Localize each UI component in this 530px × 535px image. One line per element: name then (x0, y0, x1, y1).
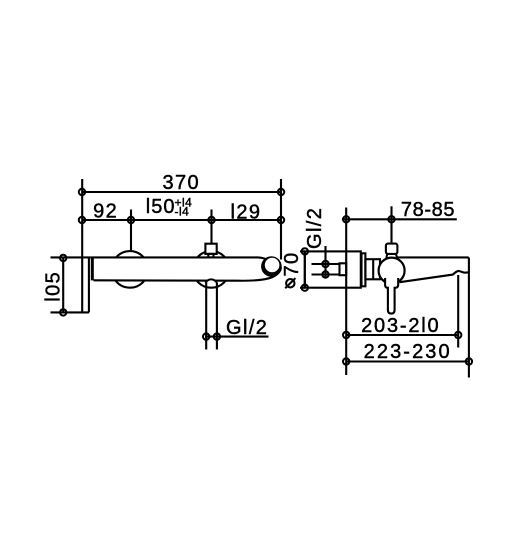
extension line rosette1 (130, 210, 132, 252)
circle 129 right (278, 217, 284, 223)
circle 105 bottom (60, 309, 66, 315)
body cylinder (365, 259, 380, 279)
circle 105 top (60, 255, 66, 261)
wall plate bottom edge (51, 311, 90, 313)
aerator extension (457, 275, 459, 348)
port pipe bottom (312, 273, 340, 275)
svg-text:223-230: 223-230 (364, 341, 452, 363)
circle 203 left (343, 332, 349, 338)
extension line knob (210, 210, 212, 244)
leader G1/2 front (205, 336, 269, 338)
knob neck right (396, 254, 397, 258)
circle dia70 top (302, 248, 308, 254)
circle 92 left (79, 217, 85, 223)
circle G12 front right (214, 333, 220, 339)
svg-text:-l4: -l4 (175, 204, 190, 218)
knob stem extension (390, 206, 392, 243)
svg-text:Gl/2: Gl/2 (226, 317, 268, 339)
svg-text:Gl/2: Gl/2 (304, 207, 326, 249)
cartridge box (340, 263, 347, 275)
hose pipe right line (216, 283, 218, 350)
phi symbol slash (285, 278, 295, 288)
circle dia70 bottom (302, 285, 308, 291)
svg-text:203-2l0: 203-2l0 (361, 315, 440, 337)
spout top edge (91, 257, 267, 259)
knob square side (386, 244, 398, 254)
lever outline (385, 278, 398, 314)
spout bottom edge (94, 267, 281, 281)
dia70 dimension line (304, 251, 306, 287)
circle port bottom (322, 271, 328, 277)
diverter knob square (205, 244, 216, 254)
wall line (345, 208, 347, 376)
housing top tick (300, 250, 305, 252)
circle 370 right (278, 189, 284, 195)
spout side fill (400, 257, 469, 281)
spout side underside (400, 271, 469, 282)
dimension line 105 (62, 258, 64, 312)
valve circle (379, 258, 405, 284)
circle 78-85 right (388, 216, 394, 222)
svg-text:l29: l29 (231, 202, 262, 224)
spout side top edge (396, 257, 469, 272)
circle port top (322, 261, 328, 267)
dimension line 78-85 (342, 218, 457, 220)
wall plate right edge (88, 257, 90, 312)
circle 223 left (343, 358, 349, 364)
circle 223 right (466, 358, 472, 364)
housing bottom tick (300, 287, 305, 289)
circle 78-85 left (343, 216, 349, 222)
dimension line 92/150/129 (82, 219, 281, 221)
cylinder joint line (372, 259, 374, 279)
circle 203 right (455, 332, 461, 338)
dimension line 223-230 (346, 360, 469, 362)
circle 92 right (128, 217, 134, 223)
hose dome cap (206, 279, 217, 283)
hose pipe left line (205, 283, 207, 350)
spout tip outer circle (262, 257, 281, 276)
wall plate top edge (51, 256, 91, 258)
circle G12 front left (203, 333, 209, 339)
spout body fill (91, 257, 281, 280)
svg-text:l05: l05 (43, 271, 65, 302)
port pipe top (312, 263, 340, 265)
dimension line 370 (82, 191, 281, 193)
in-wall housing (305, 251, 361, 287)
G1/2 leader side (324, 246, 326, 278)
spout tip extension (468, 272, 470, 378)
spout left end cap (91, 257, 94, 281)
rosette side rect (362, 253, 366, 286)
lever fill (385, 278, 398, 314)
svg-text:78-85: 78-85 (401, 199, 455, 221)
svg-text:92: 92 (93, 201, 118, 223)
svg-text:70: 70 (281, 251, 303, 276)
svg-text:370: 370 (163, 172, 201, 194)
extension stub right top (280, 179, 282, 260)
spout tip inner circle (265, 258, 280, 273)
dimension circles (60, 189, 472, 365)
rosette circle mid (193, 251, 230, 288)
svg-text:l50: l50 (146, 196, 176, 218)
knob neck (208, 254, 213, 258)
dimension line 203-210 (346, 334, 458, 336)
circle 370 left (79, 189, 85, 195)
wall plate left edge / extension line (81, 179, 83, 312)
phi symbol circle (286, 279, 294, 287)
circle 150 right (208, 217, 214, 223)
knob neck left (386, 254, 387, 258)
rosette circle left (112, 251, 149, 288)
